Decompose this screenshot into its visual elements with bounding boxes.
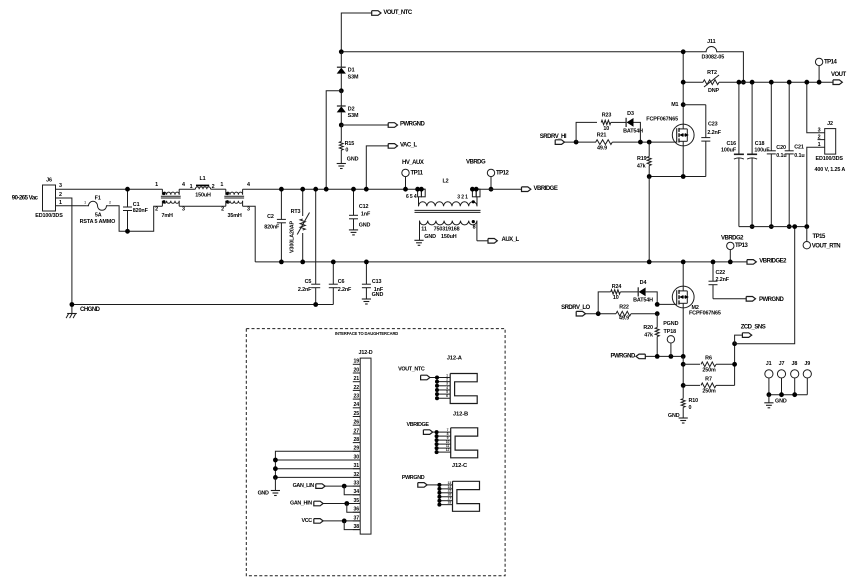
pin 34 J12-D: [353, 494, 360, 496]
wire: [611, 121, 626, 123]
wire: [179, 188, 195, 190]
svg-text:C5: C5: [305, 279, 312, 285]
wire VBRIDGE stub: [480, 188, 522, 190]
svg-text:90-265 Vac: 90-265 Vac: [12, 195, 39, 201]
svg-text:VBRDG: VBRDG: [466, 159, 486, 165]
svg-text:F1: F1: [95, 196, 101, 202]
wire: [646, 292, 658, 305]
node: [804, 80, 809, 85]
node: [313, 187, 318, 192]
node: [681, 174, 686, 179]
svg-text:PWRGND: PWRGND: [400, 121, 425, 127]
wire: [243, 206, 256, 262]
svg-text:GND: GND: [359, 223, 371, 229]
svg-text:TP15: TP15: [813, 234, 827, 240]
svg-text:10: 10: [613, 295, 619, 301]
svg-text:C21: C21: [794, 144, 804, 150]
node: [681, 354, 686, 359]
node: [804, 224, 809, 229]
svg-text:35mH: 35mH: [228, 213, 242, 219]
pin 36 J12-D: [353, 511, 360, 513]
wire source junction: [649, 176, 706, 178]
wire: [612, 141, 677, 143]
svg-text:TP14: TP14: [824, 59, 838, 65]
svg-text:FCPF067N65: FCPF067N65: [689, 310, 721, 316]
dashed box interface: [246, 329, 505, 576]
svg-text:VOUT_NTC: VOUT_NTC: [398, 367, 425, 373]
svg-text:L1: L1: [199, 176, 205, 182]
svg-text:TP11: TP11: [411, 170, 424, 176]
testpoint J1: [765, 370, 773, 378]
pin 25 J12-D: [353, 416, 360, 418]
wire ZCD vertical: [734, 344, 736, 386]
resistor R24: [611, 290, 621, 294]
wire: [565, 141, 597, 143]
testpoint J8: [791, 370, 799, 378]
ground L2 GND: [414, 239, 423, 241]
svg-text:VOUT_RTN: VOUT_RTN: [812, 244, 841, 250]
svg-text:J6: J6: [46, 178, 52, 184]
svg-text:RT2: RT2: [707, 70, 717, 76]
capacitor C23: [683, 104, 706, 106]
wire ZCD_SNS to bus: [735, 227, 795, 344]
node: [313, 302, 318, 307]
pin 27 J12-D: [353, 433, 360, 435]
pin 30 J12-D: [353, 459, 360, 461]
svg-text:C12: C12: [359, 204, 369, 210]
svg-text:2: 2: [155, 207, 158, 213]
svg-text:J12-D: J12-D: [358, 350, 372, 356]
svg-text:RT3: RT3: [291, 209, 301, 215]
node: [339, 88, 344, 93]
wire VOUT rail: [737, 81, 833, 83]
capacitor C22: [712, 262, 714, 281]
wire: [631, 313, 657, 315]
svg-text:6 5 4: 6 5 4: [406, 194, 417, 200]
svg-text:J2: J2: [827, 121, 833, 127]
svg-text:J12-C: J12-C: [452, 463, 468, 469]
node: [403, 187, 408, 192]
wire: [56, 198, 72, 305]
wire J2 pin2 stub: [818, 139, 825, 141]
wire gate M2: [657, 303, 677, 305]
svg-text:750319168: 750319168: [434, 227, 460, 233]
flag PWRGND right: [746, 297, 755, 302]
svg-text:J8: J8: [792, 361, 798, 367]
capacitor C13: [365, 262, 367, 284]
connector J6: [43, 185, 56, 211]
svg-text:J12-B: J12-B: [453, 412, 468, 418]
node: [655, 354, 660, 359]
testpoint TP18 PGND: [670, 343, 672, 356]
node: [300, 187, 305, 192]
node: [681, 383, 686, 388]
svg-text:20: 20: [353, 367, 359, 373]
node: [711, 260, 716, 265]
svg-text:4: 4: [182, 182, 185, 188]
svg-text:C6: C6: [338, 279, 345, 285]
node: [681, 102, 686, 107]
capacitor C18: [751, 82, 753, 154]
node: [681, 80, 686, 85]
testpoint TP14 VOUT: [818, 66, 820, 83]
resistor R20: [656, 314, 658, 328]
flag VOUT: [833, 80, 842, 85]
svg-text:L2: L2: [442, 178, 448, 184]
node: [342, 519, 347, 524]
wire upper branch: [576, 122, 597, 142]
wire: [326, 91, 341, 189]
wire: [586, 313, 617, 315]
svg-text:INTERFACE TO DAUGHTERCARD: INTERFACE TO DAUGHTERCARD: [335, 331, 398, 336]
svg-text:150uH: 150uH: [441, 234, 457, 240]
svg-text:VBRIDGE2: VBRIDGE2: [759, 259, 787, 265]
ground CHGND chassis: [71, 305, 73, 314]
flag ZCD_SNS: [735, 335, 743, 344]
node: [574, 140, 579, 145]
node: [596, 311, 601, 316]
wire return bus: [739, 226, 807, 228]
node: [339, 123, 344, 128]
resistor R21: [596, 140, 613, 145]
svg-text:R19: R19: [637, 156, 647, 162]
svg-text:C13: C13: [372, 279, 382, 285]
wire M2 source down: [682, 356, 684, 398]
svg-text:1: 1: [190, 184, 193, 190]
connector J2: [825, 129, 836, 155]
wire pins 29-32 to GND: [275, 451, 360, 477]
node: [324, 187, 329, 192]
svg-text:R7: R7: [705, 377, 712, 383]
testpoint TP11 HV_AUX: [405, 177, 407, 190]
svg-text:J9: J9: [804, 361, 810, 367]
svg-text:820nF: 820nF: [264, 225, 280, 231]
svg-text:GAN_HIN: GAN_HIN: [290, 501, 312, 507]
pin 28 J12-D: [353, 442, 360, 444]
svg-text:CHGND: CHGND: [80, 307, 101, 313]
resistor R6: [683, 363, 700, 365]
svg-text:SRDRV_LO: SRDRV_LO: [561, 305, 590, 311]
svg-text:ZCD_SNS: ZCD_SNS: [741, 325, 766, 331]
node: [351, 187, 356, 192]
svg-text:2: 2: [109, 201, 111, 205]
svg-text:V300LA20AP: V300LA20AP: [289, 220, 295, 253]
resistor R15: [340, 125, 342, 142]
varistor RT3: [302, 189, 304, 216]
node: [273, 458, 278, 463]
svg-text:11: 11: [421, 227, 427, 233]
wire: [645, 355, 683, 357]
capacitor C20: [770, 82, 772, 151]
svg-text:VBRDG2: VBRDG2: [721, 235, 744, 241]
svg-text:49.9: 49.9: [597, 146, 607, 152]
varistor RT2 DNP: [683, 81, 703, 83]
svg-text:2: 2: [59, 192, 62, 198]
wire: [56, 205, 87, 207]
svg-text:19: 19: [353, 359, 359, 365]
node: [125, 229, 130, 234]
node: [300, 260, 305, 265]
node: [364, 187, 369, 192]
svg-text:47k: 47k: [644, 333, 653, 339]
capacitor C16: [738, 82, 740, 154]
svg-text:RSTA 5 AMMO: RSTA 5 AMMO: [80, 219, 116, 225]
wire: [648, 177, 650, 262]
pin 24 J12-D: [353, 407, 360, 409]
node: [750, 80, 755, 85]
svg-text:3: 3: [182, 207, 185, 213]
ground: [349, 229, 358, 231]
testpoint TP13 VBRDG2: [729, 250, 731, 262]
node: [125, 187, 130, 192]
flag VBRIDGE: [522, 187, 531, 192]
pin 19 J12-D: [353, 363, 360, 365]
svg-text:10: 10: [603, 126, 609, 132]
capacitor C1: [127, 189, 129, 207]
svg-text:0: 0: [689, 405, 692, 411]
node: [489, 187, 494, 192]
node: [728, 260, 733, 265]
svg-text:23: 23: [353, 394, 359, 400]
svg-text:VOUT: VOUT: [831, 72, 847, 78]
wire: [620, 291, 638, 293]
pin 32 J12-D: [353, 476, 360, 478]
svg-text:M1: M1: [671, 102, 678, 108]
svg-text:0: 0: [345, 147, 348, 153]
node: [70, 302, 75, 307]
pin 23 J12-D: [353, 398, 360, 400]
svg-text:2.2nF: 2.2nF: [707, 130, 721, 136]
svg-text:49.9: 49.9: [619, 316, 629, 322]
svg-text:12: 12: [446, 448, 450, 452]
transformer L2: [418, 189, 422, 197]
node: [792, 224, 797, 229]
capacitor C2: [280, 189, 282, 219]
svg-text:GND: GND: [258, 491, 269, 497]
flag PWRGND: [388, 123, 397, 128]
testpoint TP15 VOUT_RTN: [806, 227, 808, 242]
wire: [634, 122, 641, 142]
testpoint J9: [803, 370, 811, 378]
diode D3: [625, 118, 627, 127]
node: [470, 187, 475, 192]
capacitor C5: [315, 189, 317, 284]
node: [767, 392, 772, 397]
node: [681, 49, 686, 54]
testpoint TP12 VBRDG: [490, 177, 492, 190]
svg-text:BAT54H: BAT54H: [633, 297, 653, 303]
svg-text:150uH: 150uH: [195, 193, 211, 199]
svg-text:R15: R15: [345, 141, 355, 147]
mosfet M1 FCPF067N65: [682, 52, 684, 124]
svg-text:R22: R22: [619, 304, 629, 310]
svg-text:J11: J11: [707, 39, 715, 45]
svg-text:TP12: TP12: [496, 170, 510, 176]
wire: [128, 188, 162, 190]
wire J2 pin3: [807, 82, 825, 133]
svg-text:J12-A: J12-A: [447, 356, 463, 362]
wire chassis rail: [72, 304, 333, 306]
node: [817, 80, 822, 85]
svg-text:GND: GND: [424, 234, 436, 240]
wire: [713, 298, 746, 300]
svg-text:VOUT_NTC: VOUT_NTC: [383, 10, 413, 16]
svg-text:ED100/3DS: ED100/3DS: [816, 156, 844, 162]
pin 20 J12-D: [353, 372, 360, 374]
wire: [769, 394, 807, 396]
pin 33 J12-D: [353, 485, 360, 487]
wire top filter rail: [243, 188, 426, 190]
node: [647, 260, 652, 265]
flag VBRIDGE2: [747, 260, 756, 265]
svg-text:22: 22: [353, 385, 359, 391]
wire: [56, 188, 129, 190]
svg-text:AUX_L: AUX_L: [502, 237, 520, 243]
inductor L4: [161, 189, 163, 194]
svg-text:PWRGND: PWRGND: [610, 354, 635, 360]
svg-text:250m: 250m: [702, 367, 716, 373]
node: [787, 80, 792, 85]
svg-text:PWRGND: PWRGND: [402, 475, 425, 481]
pin 38 J12-D: [353, 529, 360, 531]
svg-text:C2: C2: [267, 214, 274, 220]
svg-text:24: 24: [353, 402, 359, 408]
svg-text:2: 2: [221, 207, 224, 213]
svg-text:0.1u: 0.1u: [794, 153, 804, 159]
connector J12-D: [360, 358, 371, 534]
node: [364, 260, 369, 265]
svg-text:S3M: S3M: [348, 113, 359, 119]
svg-text:GND: GND: [668, 413, 680, 419]
pin 22 J12-D: [353, 389, 360, 391]
svg-text:ED100/3DS: ED100/3DS: [35, 213, 63, 219]
svg-text:S3M: S3M: [348, 74, 359, 80]
svg-text:3: 3: [59, 183, 62, 189]
svg-text:250m: 250m: [702, 388, 716, 394]
pin 37 J12-D: [353, 520, 360, 522]
capacitor C6: [332, 262, 334, 284]
svg-text:C20: C20: [776, 145, 786, 151]
node: [279, 260, 284, 265]
resistor R22: [616, 311, 631, 316]
svg-text:6: 6: [446, 394, 448, 398]
svg-text:J7: J7: [779, 361, 785, 367]
ground: [679, 417, 688, 419]
node: [655, 311, 660, 316]
svg-text:820nF: 820nF: [133, 208, 149, 214]
resistor R10: [681, 399, 685, 408]
svg-text:TP13: TP13: [735, 243, 749, 249]
svg-text:GND: GND: [372, 292, 384, 298]
svg-text:3 2 1: 3 2 1: [457, 194, 468, 200]
svg-text:R21: R21: [597, 133, 607, 139]
node: [769, 80, 774, 85]
svg-text:3: 3: [247, 207, 250, 213]
ground: [362, 298, 371, 300]
flag AUX_L: [488, 239, 497, 244]
svg-text:GND: GND: [347, 156, 359, 162]
node: [681, 362, 686, 367]
wire: [472, 188, 480, 190]
svg-text:C16: C16: [726, 141, 736, 147]
svg-text:21: 21: [353, 376, 359, 382]
svg-text:SRDRV_HI: SRDRV_HI: [540, 134, 567, 140]
diode D1: [340, 52, 342, 67]
node: [655, 302, 660, 307]
wire PWRGND stub: [341, 124, 388, 126]
svg-text:47k: 47k: [637, 163, 646, 169]
svg-text:GND: GND: [775, 399, 787, 405]
svg-text:VBRIDGE: VBRIDGE: [534, 186, 558, 192]
svg-text:R6: R6: [705, 355, 712, 361]
svg-text:PGND: PGND: [663, 321, 678, 327]
svg-text:HV_AUX: HV_AUX: [402, 160, 424, 166]
capacitor C12: [353, 189, 355, 215]
svg-text:1: 1: [220, 182, 223, 188]
pin 35 J12-D: [353, 503, 360, 505]
svg-text:D4: D4: [640, 280, 647, 286]
mosfet M2 FCPF067N65: [682, 262, 684, 286]
wire M1 source: [682, 146, 684, 177]
wire VAC_L stub: [366, 146, 388, 189]
wire M2 source: [682, 308, 684, 357]
svg-text:4: 4: [247, 182, 250, 188]
svg-text:8: 8: [473, 225, 476, 231]
node: [339, 49, 344, 54]
svg-text:GAN_LIN: GAN_LIN: [293, 483, 315, 489]
svg-text:VBRIDGE: VBRIDGE: [406, 422, 429, 428]
node: [737, 80, 742, 85]
svg-text:D3082-05: D3082-05: [701, 54, 724, 60]
ground: [274, 477, 276, 490]
svg-text:R23: R23: [602, 113, 612, 119]
svg-text:D2: D2: [348, 106, 355, 112]
fuse F1: [87, 201, 108, 210]
resistor R23: [601, 120, 611, 124]
node: [331, 260, 336, 265]
svg-text:100uF: 100uF: [721, 147, 737, 153]
svg-text:D1: D1: [348, 68, 355, 74]
svg-text:2.2nF: 2.2nF: [338, 287, 352, 293]
svg-text:400 V, 1.25 A: 400 V, 1.25 A: [815, 167, 846, 173]
resistor R7: [683, 384, 700, 386]
flag VOUT_NTC: [372, 11, 381, 16]
svg-text:PWRGND: PWRGND: [759, 297, 784, 303]
svg-text:D3: D3: [627, 111, 634, 117]
svg-text:1: 1: [84, 201, 86, 205]
svg-text:R20: R20: [643, 325, 653, 331]
node: [344, 501, 349, 506]
diode D2: [340, 91, 342, 106]
capacitor C21: [788, 82, 790, 151]
node: [647, 174, 652, 179]
pin 21 J12-D: [353, 381, 360, 383]
svg-text:7mH: 7mH: [162, 213, 174, 219]
flag VAC_L: [388, 144, 397, 149]
svg-text:VAC_L: VAC_L: [400, 143, 418, 149]
node: [342, 484, 347, 489]
svg-text:5A: 5A: [95, 213, 102, 219]
wire AUX_L stub: [477, 240, 488, 242]
inductor L3: [225, 189, 227, 194]
wire mid rail: [255, 261, 747, 263]
wire: [108, 206, 162, 232]
wire top rail: [341, 51, 683, 53]
pin 31 J12-D: [353, 468, 360, 470]
pin 26 J12-D: [353, 424, 360, 426]
node: [669, 354, 674, 359]
svg-text:J1: J1: [766, 361, 772, 367]
